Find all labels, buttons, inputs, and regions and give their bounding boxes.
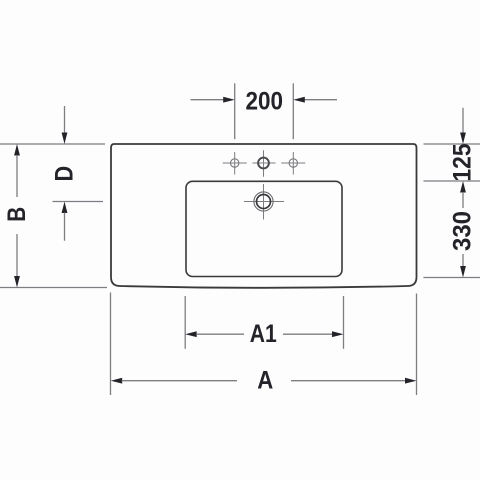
dim B: up arrow	[14, 144, 20, 156]
dim 200: extension line right	[292, 83, 294, 139]
dim 200: right arrow	[304, 99, 337, 101]
svg-text:200: 200	[246, 87, 284, 115]
svg-text:B: B	[3, 207, 31, 222]
dim 330: down arrow	[462, 254, 464, 266]
dim 125/330: bottom extension line	[423, 277, 480, 279]
left faucet hole circle	[231, 159, 239, 167]
dim A: right extension line	[416, 294, 418, 396]
dim A: left arrow	[111, 378, 123, 384]
dim D: down arrow from above	[64, 106, 66, 133]
dim 125/330: top extension line	[424, 143, 480, 145]
dim D: bottom extension line	[53, 201, 104, 203]
dim 330: up arrow	[460, 181, 466, 193]
dim 200: left arrow	[191, 99, 224, 101]
dim A: right arrow	[291, 380, 406, 382]
svg-text:D: D	[51, 166, 79, 182]
dim B: down arrow	[16, 234, 18, 276]
dim 125: down arrow from above	[462, 108, 464, 133]
dim 200: extension line left	[234, 83, 236, 139]
dim B: bottom extension line	[0, 287, 107, 289]
dim B/D: top extension line	[0, 143, 105, 145]
center faucet hole circle	[258, 158, 269, 169]
dim A1: right extension line	[343, 296, 345, 349]
dim D: up arrow below	[62, 202, 68, 214]
dim A1: left arrow	[185, 331, 197, 337]
svg-text:A: A	[257, 367, 273, 395]
left faucet hole crosshair	[223, 152, 247, 175]
dim 125/330: middle extension line	[424, 180, 480, 182]
dim A1: right arrow	[283, 333, 333, 335]
inner basin outline	[186, 181, 342, 276]
dim A: left extension line	[110, 293, 112, 396]
svg-text:A1: A1	[250, 320, 277, 348]
washbasin outer outline	[111, 144, 417, 288]
svg-text:330: 330	[449, 211, 477, 251]
dim A1: left extension line	[184, 296, 186, 349]
svg-text:125: 125	[449, 143, 477, 181]
drain hole inner circle	[257, 195, 271, 209]
right faucet hole circle	[289, 159, 297, 167]
drain hole crosshair	[244, 184, 284, 220]
drain hole outer circle	[254, 192, 273, 211]
center faucet hole crosshair	[252, 150, 275, 176]
right faucet hole crosshair	[281, 152, 305, 175]
